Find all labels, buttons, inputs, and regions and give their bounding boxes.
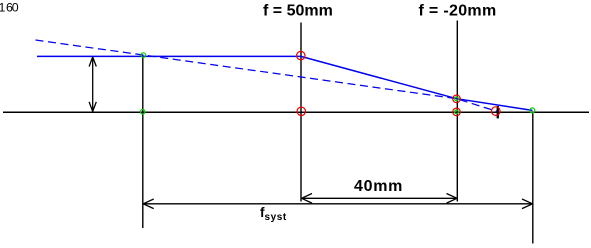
focal plane line right [532,112,534,244]
lens 1 line (f=50mm) [300,23,302,202]
lens 2 line (f=-20mm) [456,21,458,202]
object height double arrow [89,57,96,111]
f_syst dimension arrow [143,199,532,209]
green node system focus [530,108,535,113]
red node image [492,107,501,116]
svg-text:0: 0 [12,1,19,15]
label 160 [0,1,19,15]
40mm dimension arrow [302,194,458,204]
solid blue ray [37,56,532,110]
red+green node lens2 axis [453,108,461,116]
red+green node lens2 ray [453,95,461,103]
svg-text:fsyst: fsyst [260,205,287,223]
svg-text:1: 1 [0,1,6,15]
red node lens1 top [297,51,305,59]
green node object top [141,53,146,58]
green node object base [140,110,145,115]
dashed blue ray [36,40,498,112]
red node lens1 axis [297,107,305,115]
svg-text:f = 50mm: f = 50mm [263,2,333,19]
object line [142,55,144,228]
image tick [497,106,499,118]
optical axis [3,111,589,113]
svg-text:f = -20mm: f = -20mm [419,2,497,19]
svg-text:40mm: 40mm [354,178,403,195]
